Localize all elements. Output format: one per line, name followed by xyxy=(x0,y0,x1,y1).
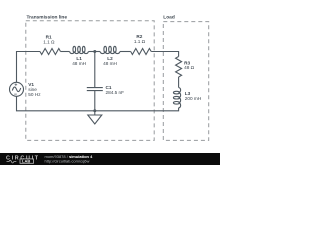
resistor R3 xyxy=(176,57,182,78)
label R1 1.1 ohm xyxy=(43,34,55,44)
svg-text:284.5 nF: 284.5 nF xyxy=(106,90,125,95)
node B junction dot xyxy=(93,109,96,112)
inductor L1 xyxy=(70,46,89,53)
wire: R2 to load corner, down to R3 xyxy=(151,52,178,57)
capacitor C1 bottom lead xyxy=(94,91,96,111)
svg-text:Load: Load xyxy=(163,15,175,21)
node A junction dot xyxy=(93,50,96,53)
resistor R1 xyxy=(40,49,61,55)
label L1 48 mH xyxy=(72,56,86,66)
svg-text:200 mH: 200 mH xyxy=(185,96,201,101)
logo LAB box xyxy=(20,159,34,163)
label L3 200 mH xyxy=(185,91,201,101)
wire: R1 to L1 xyxy=(61,51,70,53)
wire: V1 top lead up to top rail xyxy=(17,52,41,83)
resistor R2 xyxy=(131,49,152,55)
svg-text:48 mH: 48 mH xyxy=(72,61,86,66)
svg-text:1.1 Ω: 1.1 Ω xyxy=(43,39,55,44)
svg-text:LAB: LAB xyxy=(22,159,30,164)
inductor L3 xyxy=(173,88,180,108)
svg-text:48 mH: 48 mH xyxy=(103,61,117,66)
svg-text:Transmission line: Transmission line xyxy=(27,15,68,21)
label R2 1.1 ohm xyxy=(134,34,146,44)
svg-text:http://circuitlab.com/cq6w: http://circuitlab.com/cq6w xyxy=(45,158,90,163)
capacitor C1 xyxy=(87,88,103,91)
dashed box: Load xyxy=(163,22,208,141)
wire: L1 to node A xyxy=(88,51,100,53)
label C1 284.5 nF xyxy=(106,85,125,95)
wire: R3 to L3 xyxy=(178,77,180,88)
svg-text:1.1 Ω: 1.1 Ω xyxy=(134,39,146,44)
svg-text:48 Ω: 48 Ω xyxy=(184,65,195,70)
footer bar xyxy=(0,153,220,165)
capacitor C1 top lead xyxy=(94,52,96,88)
svg-text:50 Hz: 50 Hz xyxy=(28,92,41,97)
logo waveform xyxy=(7,160,17,163)
inductor L2 xyxy=(100,46,120,53)
label L2 48 mH xyxy=(103,56,117,66)
label V1 sine 50 Hz xyxy=(28,82,41,97)
dashed box: Transmission line xyxy=(26,21,154,141)
wire: L3 down to bottom rail, bottom rail to V1 xyxy=(17,96,179,111)
wire: L2 to R2 xyxy=(120,51,131,53)
label R3 48 ohm xyxy=(184,61,195,70)
voltage source V1 xyxy=(10,82,24,96)
ground xyxy=(88,111,102,124)
